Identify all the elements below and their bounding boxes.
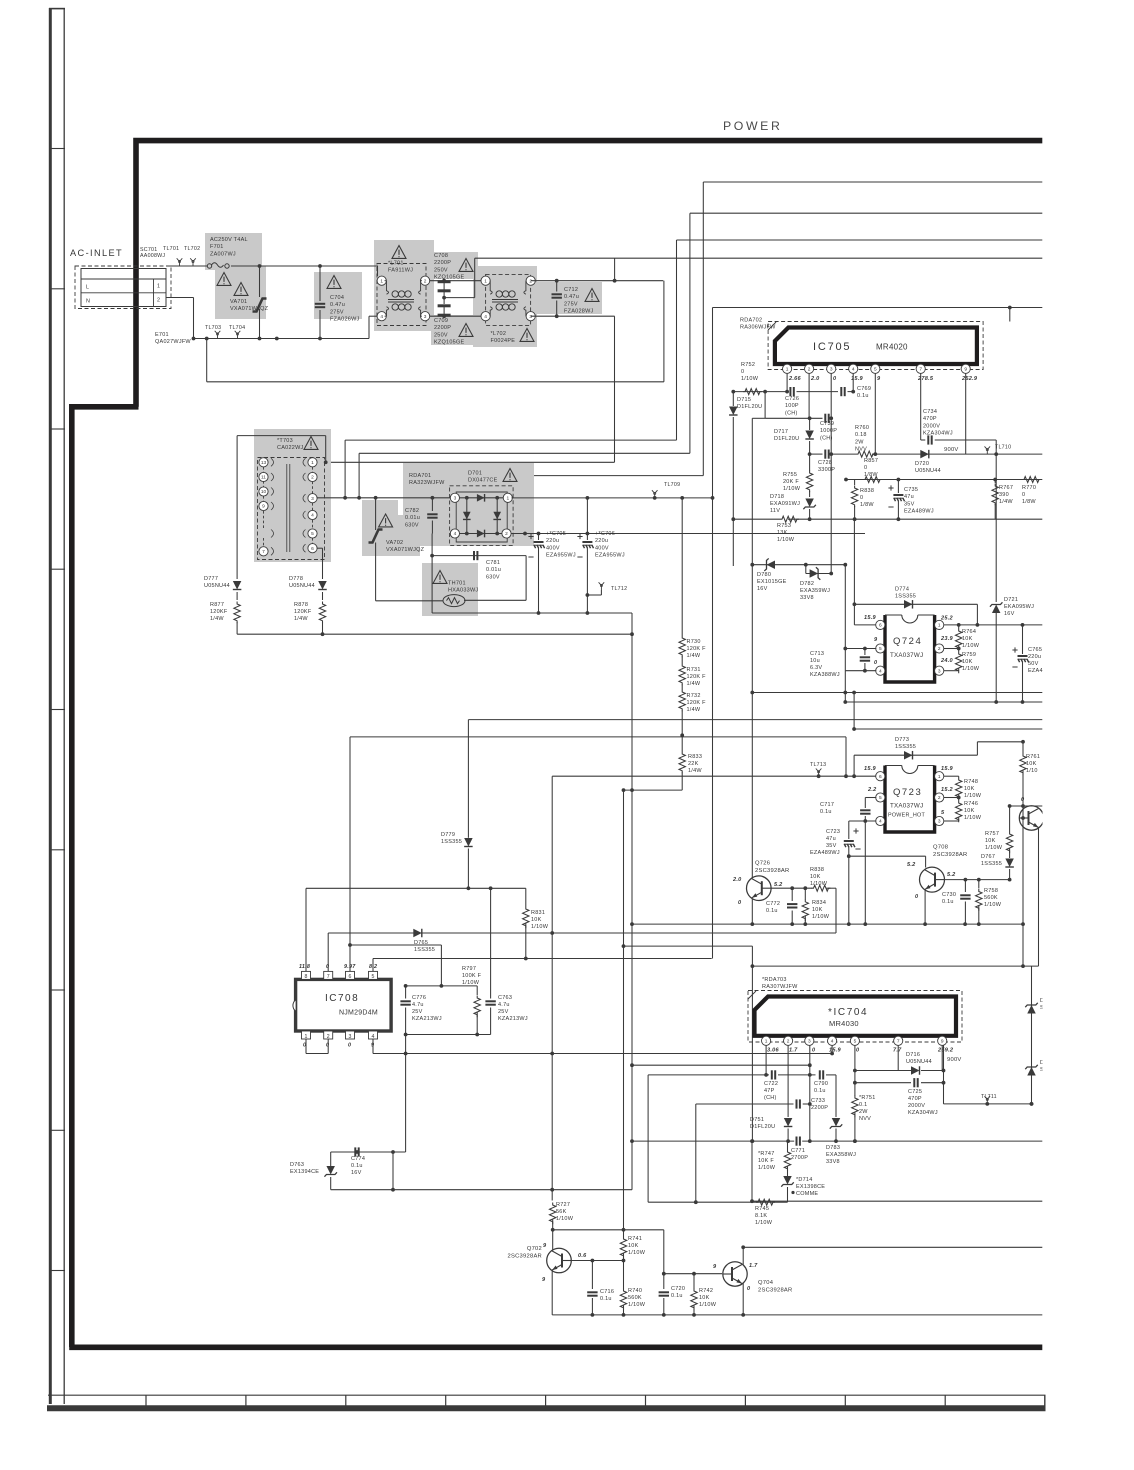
svg-text:Q708: Q708: [933, 845, 948, 851]
svg-text:120KF: 120KF: [210, 609, 228, 615]
svg-text:560K: 560K: [628, 1295, 642, 1301]
svg-text:11: 11: [261, 475, 266, 481]
svg-text:D780: D780: [757, 572, 771, 578]
svg-text:1: 1: [938, 623, 941, 629]
svg-text:Q724: Q724: [893, 636, 922, 647]
svg-text:1/4W: 1/4W: [687, 681, 701, 687]
svg-text:10K: 10K: [964, 808, 975, 814]
svg-text:VA701: VA701: [230, 299, 247, 305]
svg-text:E701: E701: [155, 332, 169, 338]
svg-text:(CH): (CH): [764, 1095, 777, 1101]
svg-text:R727: R727: [556, 1202, 570, 1208]
svg-text:EKA095WJ: EKA095WJ: [1004, 604, 1034, 610]
svg-text:0: 0: [741, 369, 744, 375]
svg-text:D751: D751: [750, 1117, 764, 1123]
svg-text:0.1u: 0.1u: [857, 393, 869, 399]
svg-text:1/4W: 1/4W: [687, 653, 701, 659]
svg-text:5: 5: [372, 974, 375, 980]
svg-text:EX1015GE: EX1015GE: [757, 579, 787, 585]
svg-text:4: 4: [484, 314, 487, 320]
svg-text:15.9: 15.9: [864, 766, 877, 772]
svg-text:3.06: 3.06: [767, 1048, 780, 1054]
svg-text:1/10W: 1/10W: [758, 1165, 776, 1171]
svg-text:1.7: 1.7: [789, 1048, 798, 1054]
svg-text:47u: 47u: [904, 494, 914, 500]
svg-text:7: 7: [897, 1039, 900, 1045]
svg-text:1SS355: 1SS355: [981, 861, 1002, 867]
svg-text:SC701: SC701: [140, 247, 157, 253]
svg-text:R730: R730: [687, 639, 701, 645]
svg-text:0.47u: 0.47u: [564, 294, 579, 300]
svg-text:KZA388WJ: KZA388WJ: [810, 672, 840, 678]
svg-text:C712: C712: [564, 287, 578, 293]
svg-text:15.9: 15.9: [864, 615, 877, 621]
svg-text:EXA359WJ: EXA359WJ: [800, 588, 830, 594]
svg-text:(CH): (CH): [820, 435, 833, 441]
svg-text:390: 390: [999, 492, 1009, 498]
svg-text:NVV: NVV: [859, 1116, 871, 1122]
svg-text:U05NU44: U05NU44: [289, 583, 315, 589]
svg-text:EZA955WJ: EZA955WJ: [546, 553, 576, 559]
svg-text:0.18: 0.18: [855, 432, 867, 438]
svg-text:TXA037WJ: TXA037WJ: [890, 652, 923, 659]
svg-text:D720: D720: [915, 461, 929, 467]
svg-text:3: 3: [424, 314, 427, 320]
svg-text:6: 6: [879, 623, 882, 629]
svg-text:0.1u: 0.1u: [814, 1088, 826, 1094]
svg-text:4.7u: 4.7u: [412, 1002, 424, 1008]
svg-text:1: 1: [157, 284, 160, 290]
svg-text:0.01u: 0.01u: [486, 567, 501, 573]
svg-text:1: 1: [938, 774, 941, 780]
svg-text:D767: D767: [981, 854, 995, 860]
svg-text:VXA071WJQZ: VXA071WJQZ: [230, 306, 269, 312]
svg-text:13: 13: [261, 460, 267, 466]
svg-text:10K: 10K: [812, 907, 823, 913]
svg-text:TL709: TL709: [664, 482, 680, 488]
svg-text:35V: 35V: [904, 501, 915, 507]
svg-text:2SC3928AR: 2SC3928AR: [755, 868, 789, 874]
svg-text:0: 0: [1022, 492, 1025, 498]
svg-text:10K: 10K: [628, 1243, 639, 1249]
svg-text:3: 3: [938, 819, 941, 825]
svg-text:C730: C730: [942, 892, 956, 898]
svg-text:CA022WJ: CA022WJ: [277, 445, 304, 451]
svg-text:10u: 10u: [810, 658, 820, 664]
svg-text:TL703: TL703: [205, 325, 221, 331]
svg-text:C782: C782: [405, 508, 419, 514]
svg-text:400V: 400V: [546, 545, 560, 551]
svg-text:120K F: 120K F: [687, 700, 707, 706]
svg-text:24.0: 24.0: [940, 658, 954, 664]
svg-text:0.1u: 0.1u: [766, 908, 778, 914]
svg-text:R745: R745: [755, 1206, 769, 1212]
svg-text:3: 3: [454, 496, 457, 502]
svg-text:50V: 50V: [1028, 661, 1039, 667]
svg-text:2: 2: [327, 1034, 330, 1040]
svg-text:2200P: 2200P: [434, 260, 451, 266]
svg-text:C709: C709: [434, 318, 448, 324]
svg-text:C733: C733: [811, 1098, 825, 1104]
svg-text:7.7: 7.7: [893, 1048, 902, 1054]
svg-text:4: 4: [454, 531, 457, 537]
svg-text:470P: 470P: [908, 1096, 922, 1102]
svg-text:250V: 250V: [434, 267, 448, 273]
svg-text:N: N: [86, 299, 90, 305]
svg-text:250V: 250V: [434, 332, 448, 338]
svg-text:220u: 220u: [1028, 654, 1041, 660]
svg-text:400V: 400V: [595, 545, 609, 551]
svg-text:D782: D782: [800, 581, 814, 587]
svg-text:275V: 275V: [564, 301, 578, 307]
svg-text:252.9: 252.9: [961, 376, 978, 382]
svg-text:R797: R797: [462, 966, 476, 972]
svg-text:0.6: 0.6: [578, 1253, 587, 1259]
svg-text:630V: 630V: [486, 574, 500, 580]
svg-text:2: 2: [424, 278, 427, 284]
svg-text:10K: 10K: [962, 659, 973, 665]
svg-text:AC250V T4AL: AC250V T4AL: [210, 237, 248, 243]
svg-text:RA323WJFW: RA323WJFW: [409, 480, 445, 486]
svg-text:2: 2: [311, 475, 314, 481]
svg-text:D1FL20U: D1FL20U: [774, 436, 799, 442]
svg-text:1/10: 1/10: [1026, 768, 1038, 774]
svg-text:120KF: 120KF: [294, 609, 312, 615]
svg-text:C771: C771: [791, 1148, 805, 1154]
svg-text:Q726: Q726: [755, 861, 770, 867]
svg-text:C716: C716: [600, 1289, 614, 1295]
svg-text:630V: 630V: [405, 522, 419, 528]
svg-text:5.2: 5.2: [774, 882, 783, 888]
svg-text:2SC3928AR: 2SC3928AR: [508, 1253, 542, 1259]
svg-text:10K: 10K: [810, 874, 821, 880]
svg-text:7: 7: [919, 367, 922, 373]
svg-text:560K: 560K: [984, 895, 998, 901]
svg-text:10: 10: [261, 489, 267, 495]
svg-text:TH701: TH701: [448, 581, 466, 587]
svg-text:*R751: *R751: [859, 1095, 876, 1101]
svg-text:D1FL20U: D1FL20U: [750, 1124, 775, 1130]
svg-text:100K F: 100K F: [462, 973, 482, 979]
svg-text:6: 6: [349, 974, 352, 980]
svg-text:10K F: 10K F: [758, 1158, 774, 1164]
svg-text:1/4W: 1/4W: [294, 616, 308, 622]
svg-text:*L702: *L702: [491, 331, 507, 337]
svg-text:C763: C763: [498, 995, 512, 1001]
svg-text:VA702: VA702: [386, 540, 403, 546]
svg-text:4: 4: [831, 1039, 834, 1045]
svg-text:1/10W: 1/10W: [699, 1302, 717, 1308]
svg-text:C725: C725: [908, 1089, 922, 1095]
svg-text:6: 6: [879, 774, 882, 780]
svg-text:5.2: 5.2: [947, 872, 956, 878]
svg-text:KZQ105GE: KZQ105GE: [434, 275, 465, 281]
svg-text:120K F: 120K F: [687, 646, 707, 652]
svg-text:C713: C713: [810, 651, 824, 657]
svg-text:33V8: 33V8: [800, 595, 814, 601]
svg-text:1/10W: 1/10W: [962, 643, 980, 649]
svg-text:EXA358WJ: EXA358WJ: [826, 1152, 856, 1158]
svg-text:Q723: Q723: [893, 787, 922, 798]
svg-text:3: 3: [808, 1039, 811, 1045]
svg-text:C790: C790: [814, 1081, 828, 1087]
svg-text:1: 1: [506, 496, 509, 502]
svg-text:22K: 22K: [688, 761, 699, 767]
svg-text:2700P: 2700P: [791, 1155, 808, 1161]
svg-text:D717: D717: [774, 429, 788, 435]
svg-text:4: 4: [879, 819, 882, 825]
svg-text:AA008WJ: AA008WJ: [140, 253, 165, 259]
svg-text:7: 7: [327, 974, 330, 980]
svg-text:25V: 25V: [412, 1009, 423, 1015]
svg-text:220u: 220u: [595, 538, 608, 544]
svg-text:4: 4: [852, 367, 855, 373]
svg-text:1SS355: 1SS355: [895, 594, 916, 600]
svg-text:6: 6: [311, 546, 314, 552]
svg-text:1.7: 1.7: [749, 1263, 758, 1269]
svg-text:TL702: TL702: [184, 246, 200, 252]
svg-text:900V: 900V: [944, 447, 959, 453]
svg-text:1/10W: 1/10W: [964, 815, 982, 821]
svg-text:R833: R833: [688, 754, 702, 760]
svg-text:1/4W: 1/4W: [688, 768, 702, 774]
svg-text:6.3V: 6.3V: [810, 665, 822, 671]
svg-text:7: 7: [262, 549, 265, 555]
svg-text:D779: D779: [441, 832, 455, 838]
svg-text:EX1398CE: EX1398CE: [796, 1184, 825, 1190]
svg-text:5.2: 5.2: [907, 862, 916, 868]
svg-text:900V: 900V: [947, 1057, 962, 1063]
svg-text:10K: 10K: [699, 1295, 710, 1301]
svg-text:1SS355: 1SS355: [441, 839, 462, 845]
svg-text:D774: D774: [895, 587, 909, 593]
svg-text:*RDA703: *RDA703: [762, 977, 787, 983]
svg-text:FA911WJ: FA911WJ: [388, 268, 413, 274]
svg-text:R758: R758: [984, 888, 998, 894]
svg-text:2SC3928AR: 2SC3928AR: [758, 1287, 792, 1293]
svg-text:D773: D773: [895, 737, 909, 743]
svg-text:D778: D778: [289, 576, 303, 582]
svg-text:16V: 16V: [757, 586, 768, 592]
svg-text:1/10W: 1/10W: [985, 845, 1003, 851]
svg-text:R753: R753: [777, 523, 791, 529]
svg-text:TL701: TL701: [163, 246, 179, 252]
svg-text:L: L: [86, 285, 89, 291]
svg-text:1/10W: 1/10W: [984, 902, 1002, 908]
svg-text:U05NU44: U05NU44: [204, 583, 230, 589]
svg-text:16V: 16V: [351, 1170, 362, 1176]
svg-text:C717: C717: [820, 802, 834, 808]
svg-text:9: 9: [262, 504, 265, 510]
svg-text:1/10W: 1/10W: [531, 924, 549, 930]
svg-text:R742: R742: [699, 1288, 713, 1294]
svg-text:2.66: 2.66: [788, 376, 802, 382]
svg-text:3: 3: [938, 668, 941, 674]
svg-text:C720: C720: [671, 1286, 685, 1292]
svg-text:47u: 47u: [826, 836, 836, 842]
svg-text:R770: R770: [1022, 485, 1036, 491]
svg-text:1/10W: 1/10W: [741, 376, 759, 382]
svg-text:0.1u: 0.1u: [671, 1293, 683, 1299]
svg-text:IC705: IC705: [813, 341, 851, 353]
svg-text:4: 4: [380, 314, 383, 320]
svg-text:HXA033WJ: HXA033WJ: [448, 588, 478, 594]
svg-text:R760: R760: [855, 425, 869, 431]
svg-text:FZA028WJ: FZA028WJ: [564, 309, 594, 315]
svg-text:2.0: 2.0: [732, 877, 742, 883]
svg-text:EX1394CE: EX1394CE: [290, 1169, 319, 1175]
svg-text:1/4W: 1/4W: [687, 707, 701, 713]
svg-text:R878: R878: [294, 602, 308, 608]
svg-text:5: 5: [874, 367, 877, 373]
svg-text:9: 9: [941, 1039, 944, 1045]
svg-text:KZQ105GE: KZQ105GE: [434, 340, 465, 346]
svg-text:R877: R877: [210, 602, 224, 608]
svg-text:1/10W: 1/10W: [812, 914, 830, 920]
svg-text:VXA071WJQZ: VXA071WJQZ: [386, 547, 425, 553]
svg-text:R759: R759: [962, 652, 976, 658]
svg-text:0: 0: [326, 1043, 329, 1049]
svg-text:D715: D715: [737, 397, 751, 403]
svg-text:MR4030: MR4030: [829, 1019, 859, 1028]
svg-text:*R747: *R747: [758, 1151, 775, 1157]
svg-text:ZA007WJ: ZA007WJ: [210, 251, 236, 257]
svg-text:EXA091WJ: EXA091WJ: [770, 501, 800, 507]
svg-text:R746: R746: [964, 801, 978, 807]
svg-text:11.8: 11.8: [299, 964, 310, 970]
svg-text:*T703: *T703: [277, 438, 293, 444]
svg-text:TXA037WJ: TXA037WJ: [890, 803, 923, 810]
svg-text:3: 3: [830, 367, 833, 373]
svg-text:5: 5: [879, 795, 882, 801]
svg-text:COMME: COMME: [796, 1191, 818, 1197]
svg-text:1/10W: 1/10W: [962, 666, 980, 672]
svg-text:4.7u: 4.7u: [498, 1002, 510, 1008]
svg-text:8.1K: 8.1K: [755, 1213, 767, 1219]
svg-text:1/8W: 1/8W: [1022, 499, 1036, 505]
svg-text:56K: 56K: [556, 1209, 567, 1215]
svg-text:1/8W: 1/8W: [860, 502, 874, 508]
svg-text:1: 1: [311, 460, 314, 466]
svg-text:4: 4: [311, 513, 314, 519]
svg-text:EZA955WJ: EZA955WJ: [595, 553, 625, 559]
svg-text:KZA304WJ: KZA304WJ: [908, 1110, 938, 1116]
svg-text:0.1u: 0.1u: [942, 899, 954, 905]
svg-text:10K: 10K: [985, 838, 996, 844]
svg-text:RA306WJFW: RA306WJFW: [740, 325, 776, 331]
svg-text:R857: R857: [864, 458, 878, 464]
svg-text:C723: C723: [826, 829, 840, 835]
svg-text:2.2: 2.2: [867, 787, 877, 793]
svg-text:D718: D718: [770, 494, 784, 500]
svg-text:3: 3: [311, 496, 314, 502]
svg-text:0: 0: [326, 964, 329, 970]
svg-text:F0024PE: F0024PE: [491, 338, 516, 344]
svg-text:5: 5: [311, 531, 314, 537]
svg-text:10K: 10K: [962, 636, 973, 642]
svg-text:R838: R838: [860, 488, 874, 494]
svg-text:D763: D763: [290, 1162, 304, 1168]
svg-text:120K F: 120K F: [687, 674, 707, 680]
svg-text:RDA702: RDA702: [740, 318, 762, 324]
svg-text:1: 1: [380, 278, 383, 284]
svg-text:3: 3: [529, 314, 532, 320]
svg-text:*IC704: *IC704: [828, 1007, 868, 1018]
svg-text:R755: R755: [783, 472, 797, 478]
svg-text:KZA213WJ: KZA213WJ: [498, 1016, 528, 1022]
svg-text:R731: R731: [687, 667, 701, 673]
svg-text:Q704: Q704: [758, 1280, 774, 1286]
svg-text:2.0: 2.0: [810, 376, 820, 382]
svg-text:2200P: 2200P: [811, 1105, 828, 1111]
svg-text:278.5: 278.5: [917, 376, 934, 382]
svg-text:13K: 13K: [777, 530, 788, 536]
svg-text:23.9: 23.9: [940, 636, 954, 642]
svg-text:1/10W: 1/10W: [755, 1220, 773, 1226]
svg-text:C704: C704: [330, 295, 344, 301]
svg-text:1SS355: 1SS355: [895, 744, 916, 750]
svg-text:2: 2: [938, 795, 941, 801]
svg-text:U05NU44: U05NU44: [906, 1059, 932, 1065]
svg-text:0.47u: 0.47u: [330, 302, 345, 308]
svg-text:0: 0: [348, 1043, 351, 1049]
svg-text:10K: 10K: [531, 917, 542, 923]
svg-text:0.1u: 0.1u: [351, 1163, 363, 1169]
svg-text:F701: F701: [210, 244, 224, 250]
svg-text:1: 1: [484, 278, 487, 284]
svg-text:1: 1: [786, 367, 789, 373]
svg-text:1/10W: 1/10W: [777, 537, 795, 543]
svg-text:11V: 11V: [770, 508, 780, 514]
svg-text:C765: C765: [1028, 647, 1042, 653]
svg-text:1/10W: 1/10W: [964, 793, 982, 799]
svg-text:C739: C739: [820, 421, 834, 427]
svg-text:2000V: 2000V: [908, 1103, 925, 1109]
svg-text:R732: R732: [687, 693, 701, 699]
svg-text:R740: R740: [628, 1288, 642, 1294]
svg-text:R761: R761: [1026, 754, 1040, 760]
svg-text:0.1u: 0.1u: [600, 1296, 612, 1302]
svg-text:0.01u: 0.01u: [405, 515, 420, 521]
svg-text:KZA213WJ: KZA213WJ: [412, 1016, 442, 1022]
svg-text:AC-INLET: AC-INLET: [70, 248, 123, 258]
svg-text:15.9: 15.9: [941, 766, 954, 772]
svg-text:*D714: *D714: [796, 1177, 813, 1183]
svg-text:0: 0: [864, 465, 867, 471]
svg-text:NVV: NVV: [855, 447, 867, 453]
svg-text:+*C706: +*C706: [595, 531, 615, 537]
svg-text:R838: R838: [810, 867, 824, 873]
svg-text:4: 4: [372, 1034, 375, 1040]
svg-text:R741: R741: [628, 1236, 642, 1242]
svg-text:R752: R752: [741, 362, 755, 368]
svg-text:TL712: TL712: [611, 586, 627, 592]
svg-text:2W: 2W: [859, 1109, 868, 1115]
svg-text:NJM29D4M: NJM29D4M: [339, 1010, 378, 1017]
svg-text:C735: C735: [904, 487, 918, 493]
svg-text:2: 2: [808, 367, 811, 373]
svg-text:220u: 220u: [546, 538, 559, 544]
svg-text:D783: D783: [826, 1145, 840, 1151]
svg-text:POWER: POWER: [723, 119, 782, 133]
svg-text:2: 2: [529, 278, 532, 284]
svg-text:(CH): (CH): [785, 410, 798, 416]
svg-text:0: 0: [860, 495, 863, 501]
svg-text:D701: D701: [468, 471, 482, 477]
svg-text:259.2: 259.2: [937, 1048, 954, 1054]
svg-text:1/10W: 1/10W: [628, 1302, 646, 1308]
svg-text:POWER_HOT: POWER_HOT: [888, 813, 925, 819]
